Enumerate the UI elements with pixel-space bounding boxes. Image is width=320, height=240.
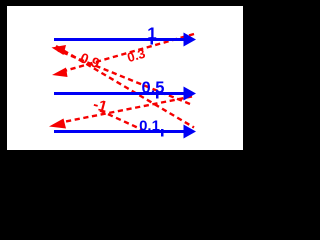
canvas background (7, 6, 243, 150)
red segment C (-1 tail): short dashes from label down to bottom line (100, 111, 145, 132)
svg-text:0.1: 0.1 (139, 117, 160, 134)
svg-text:0.5: 0.5 (142, 79, 165, 97)
tick row 3 (161, 129, 164, 137)
red arrow B (0.3): from under top-right tip down-left to middle-left head (59, 34, 194, 73)
red arrowhead of A (52, 45, 67, 55)
blue arrow 3 (bottom row) (54, 130, 184, 133)
blue arrow 1 (top row) (54, 38, 184, 41)
red arrow A (0.9): from middle-right area up-left to top-left head (58, 51, 190, 105)
tick row 1 (151, 37, 154, 45)
blue arrowhead row 3 (184, 125, 197, 139)
blue arrow 2 (middle row) (54, 92, 184, 95)
tick row 2 (156, 91, 159, 99)
red arrowhead of B (52, 68, 68, 78)
blue arrowhead row 2 (184, 87, 197, 101)
svg-text:1: 1 (147, 24, 156, 43)
red arrowhead of D (49, 119, 66, 129)
blue arrowhead row 1 (184, 33, 197, 47)
red long diagonal F: from top-left end down-right to bottom-right (56, 46, 194, 128)
red arrow D: from under middle-right tip down-left to bottom-left head (58, 97, 192, 124)
